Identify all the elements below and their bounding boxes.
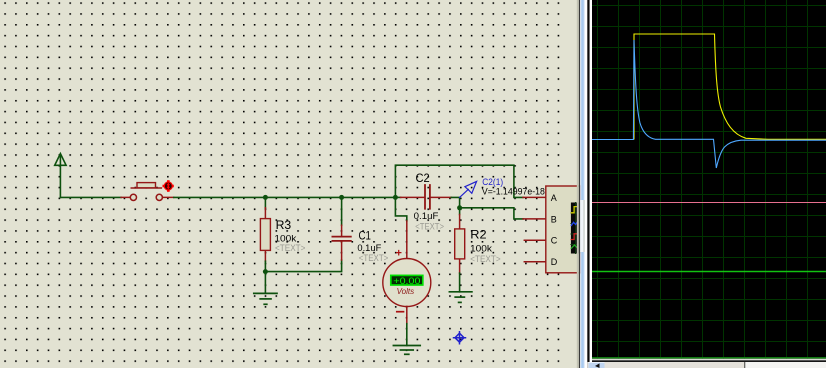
capacitor C2 — [395, 173, 451, 231]
trace channel C (pink) — [592, 202, 826, 204]
scrollbar divider — [744, 362, 745, 368]
scope bottom border & scrollbar — [592, 359, 826, 361]
ground under R2 — [449, 292, 472, 303]
wire node to voltmeter — [395, 197, 406, 221]
switch SW pins — [121, 196, 174, 198]
svg-text:R3: R3 — [276, 220, 292, 232]
voltmeter VM1 — [383, 221, 431, 324]
wire input corner to switch — [60, 196, 121, 198]
oscilloscope screen — [592, 0, 826, 359]
trace channel B (blue) — [592, 40, 826, 168]
node junction R3 top — [263, 195, 268, 200]
ground under R3 — [254, 293, 277, 304]
wire voltmeter to ground — [406, 324, 408, 346]
scroll left button — [589, 362, 605, 368]
connector mini screen icon — [571, 203, 581, 254]
svg-text:<TEXT>: <TEXT> — [359, 253, 389, 263]
node junction R3 bottom — [263, 269, 268, 274]
schematic edge shading — [577, 0, 579, 368]
scope bottom edge green line — [592, 357, 826, 359]
trace channel A (yellow) — [634, 34, 826, 140]
svg-text:+: + — [396, 248, 402, 260]
wire C2 right to probe corner — [451, 197, 459, 207]
svg-text:<TEXT>: <TEXT> — [275, 243, 305, 253]
scope window frame black — [587, 0, 589, 368]
schematic dot grid — [0, 0, 568, 368]
svg-text:D: D — [551, 257, 558, 267]
switch actuator — [131, 187, 161, 189]
switch contact circles — [130, 194, 136, 200]
svg-text:<TEXT>: <TEXT> — [470, 254, 500, 264]
ground under voltmeter — [393, 346, 420, 355]
resistor R2 — [455, 208, 501, 273]
svg-text:V=-1.14997e-18: V=-1.14997e-18 — [482, 187, 545, 197]
svg-text:0.1uF: 0.1uF — [357, 243, 381, 253]
svg-text:R2: R2 — [470, 230, 486, 242]
switch red indicator — [163, 180, 174, 192]
schematic background — [0, 0, 579, 368]
resistor R3 — [260, 197, 305, 261]
node junction C2 left — [393, 195, 398, 200]
svg-text:A: A — [551, 193, 557, 203]
wire node to B — [460, 208, 523, 219]
node junction probe/R2/B — [457, 205, 462, 210]
svg-text:Volts: Volts — [397, 286, 415, 296]
input terminal arrow — [55, 154, 66, 198]
svg-text:C2: C2 — [416, 173, 430, 185]
trace channel D (green) — [592, 271, 826, 273]
connector J1 (scope terminal) — [523, 186, 581, 273]
node junction C1 top — [339, 195, 344, 200]
white inner col — [590, 0, 592, 368]
wire bypass loop top (node to A) — [395, 165, 523, 197]
svg-text:B: B — [551, 214, 557, 224]
wire R3 bottom to C1 bottom — [265, 260, 341, 272]
origin marker — [454, 332, 466, 344]
wire R3 bottom — [264, 261, 266, 271]
svg-text:<TEXT>: <TEXT> — [415, 221, 444, 231]
voltage probe C2(1) — [460, 181, 477, 197]
vertical scrollbar — [580, 0, 585, 368]
window split: dark border — [579, 0, 580, 368]
wire C1 node to C2 node — [342, 196, 396, 198]
capacitor C1 — [332, 197, 388, 263]
wire R3 to ground — [264, 272, 266, 294]
wire R2 to ground — [459, 273, 461, 292]
svg-text:0.1uF: 0.1uF — [414, 211, 439, 221]
wire R3 node to C1 node — [265, 196, 341, 198]
svg-text:C1: C1 — [359, 231, 372, 243]
white gap col — [585, 0, 588, 368]
svg-text:100k: 100k — [470, 244, 492, 254]
wire switch to R3 node — [174, 196, 266, 198]
svg-text:C: C — [551, 236, 558, 246]
